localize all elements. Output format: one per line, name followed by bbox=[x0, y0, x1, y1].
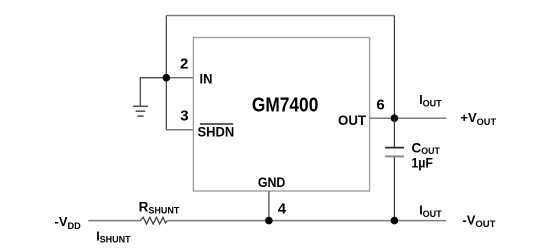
node: GND junction bbox=[265, 217, 273, 225]
svg-text:COUT: COUT bbox=[412, 141, 441, 157]
wire: IN pin stub bbox=[166, 77, 193, 79]
svg-text:3: 3 bbox=[180, 108, 188, 125]
svg-text:6: 6 bbox=[376, 97, 384, 114]
wire: top rail bbox=[166, 15, 394, 17]
svg-text:GM7400: GM7400 bbox=[252, 94, 319, 116]
pin 3 SHDN overline bbox=[200, 123, 233, 125]
label +VOUT bbox=[460, 110, 496, 127]
label 1uF value bbox=[411, 156, 433, 171]
label -VDD bbox=[55, 214, 82, 231]
capacitor C1 COUT top plate bbox=[385, 147, 404, 149]
svg-text:-VOUT: -VOUT bbox=[462, 213, 495, 231]
svg-text:SHDN: SHDN bbox=[198, 125, 235, 140]
wire: SHDN pin stub bbox=[166, 129, 193, 131]
node: OUT junction bbox=[391, 114, 399, 122]
svg-text:4: 4 bbox=[278, 200, 287, 217]
wire: right vertical from top rail down to OUT node bbox=[393, 16, 395, 119]
label COUT bbox=[412, 141, 441, 157]
svg-text:IOUT: IOUT bbox=[419, 203, 442, 219]
label ISHUNT bbox=[96, 229, 131, 244]
svg-text:ISHUNT: ISHUNT bbox=[96, 229, 131, 244]
svg-text:1µF: 1µF bbox=[411, 156, 433, 171]
resistor R1 RSHUNT bbox=[140, 217, 167, 224]
svg-text:+VOUT: +VOUT bbox=[460, 110, 496, 127]
node: -VOUT junction bbox=[391, 217, 399, 225]
pin 6 name OUT bbox=[338, 113, 367, 128]
svg-text:RSHUNT: RSHUNT bbox=[139, 200, 180, 216]
wire: bottom rail left segment from -VDD to resistor bbox=[88, 220, 140, 222]
wire: ground branch from IN node bbox=[140, 78, 166, 106]
pin 2 name IN bbox=[200, 71, 213, 86]
pin 3 number bbox=[180, 108, 188, 125]
label -VOUT bbox=[462, 213, 495, 231]
ground bbox=[133, 106, 148, 116]
svg-text:IOUT: IOUT bbox=[419, 93, 442, 109]
wire: capacitor to -VOUT rail bbox=[393, 157, 395, 221]
svg-text:GND: GND bbox=[258, 175, 286, 190]
pin 6 number bbox=[376, 97, 384, 114]
pin 4 name GND bbox=[258, 175, 286, 190]
pin 4 number bbox=[278, 200, 287, 217]
label IOUT bottom bbox=[419, 203, 442, 219]
IC U1 label GM7400 bbox=[252, 94, 319, 116]
label IOUT top bbox=[419, 93, 442, 109]
label RSHUNT bbox=[139, 200, 180, 216]
pin 3 name SHDN bbox=[198, 125, 235, 140]
svg-text:OUT: OUT bbox=[338, 113, 367, 128]
IC U1 box GM7400 bbox=[193, 38, 369, 192]
svg-text:IN: IN bbox=[200, 71, 213, 86]
wire: bottom rail right segment from resistor to -VOUT terminal bbox=[167, 220, 446, 222]
wire: GND pin down to rail bbox=[268, 191, 270, 220]
svg-text:-VDD: -VDD bbox=[55, 214, 82, 231]
capacitor C1 COUT bottom plate bbox=[385, 155, 404, 157]
wire: OUT pin to +VOUT terminal bbox=[370, 117, 447, 119]
wire: OUT node down to capacitor bbox=[393, 118, 395, 147]
pin 2 number bbox=[180, 56, 188, 73]
svg-text:2: 2 bbox=[180, 56, 188, 73]
node: IN junction bbox=[163, 74, 171, 82]
wire: left vertical from top rail through IN node to SHDN tee bbox=[165, 16, 167, 130]
